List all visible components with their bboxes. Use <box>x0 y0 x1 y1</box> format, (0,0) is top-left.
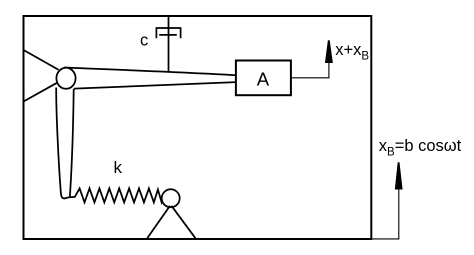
lever vertical arm left edge <box>56 88 68 199</box>
lever horizontal arm top edge <box>64 68 236 76</box>
damper rod <box>168 16 170 72</box>
mass block A <box>236 61 291 96</box>
pivot circle O <box>56 68 75 89</box>
svg-text:xB=b cosωt: xB=b cosωt <box>379 137 462 159</box>
lever horizontal arm bottom edge <box>74 82 236 89</box>
svg-text:c: c <box>140 32 148 50</box>
roller circle at spring right end <box>162 189 180 207</box>
support triangle left leg <box>147 206 170 239</box>
lever vertical arm right edge <box>70 89 74 197</box>
svg-text:k: k <box>114 158 123 177</box>
spring k zigzag <box>68 188 164 202</box>
wire from frame corner to base-motion arrow <box>371 189 398 239</box>
support triangle right leg <box>172 206 196 239</box>
frame box (vibrating base enclosure) <box>24 16 372 239</box>
damper cylinder cup c <box>156 28 180 38</box>
wall bracket upper line <box>24 50 59 70</box>
damper piston plate <box>159 34 177 36</box>
svg-text:x+xB: x+xB <box>335 41 369 63</box>
svg-text:A: A <box>257 69 270 90</box>
arrow x+xB (response, up) <box>325 40 333 63</box>
wire from block A to response arrow <box>292 62 329 78</box>
wall bracket lower line <box>24 83 58 102</box>
arrow xB (base motion, up) <box>395 162 403 189</box>
